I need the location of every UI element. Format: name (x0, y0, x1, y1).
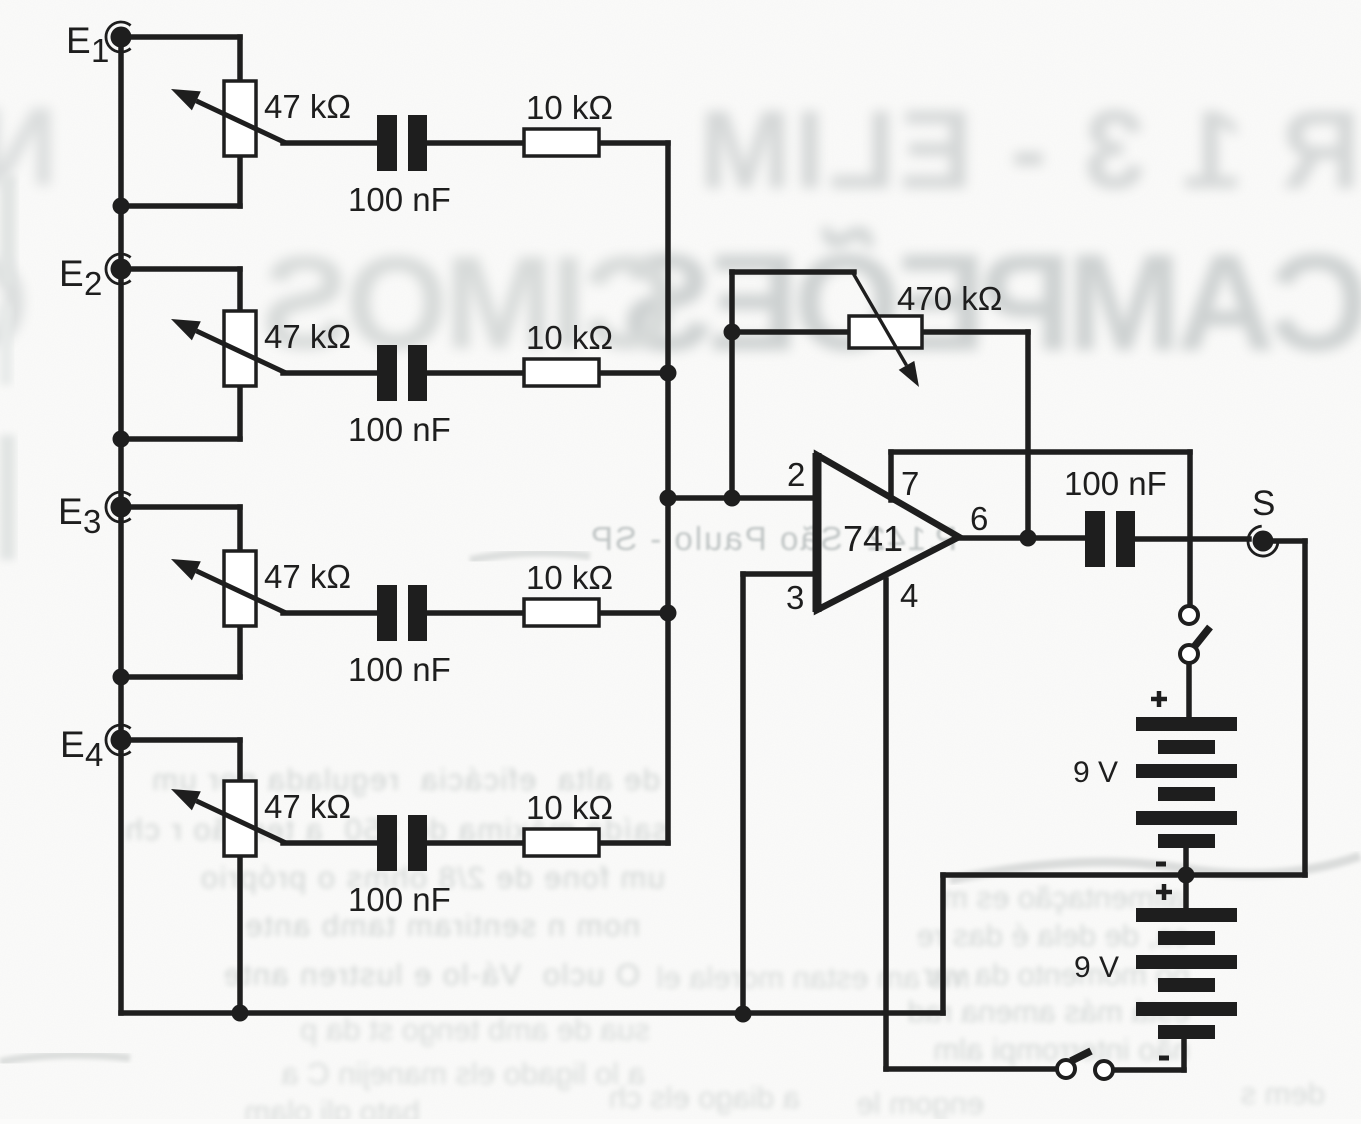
svg-text:100 nF: 100 nF (348, 651, 451, 688)
svg-text:9 V: 9 V (1074, 951, 1119, 984)
svg-text:100 nF: 100 nF (348, 411, 451, 448)
svg-text:E: E (60, 724, 85, 765)
svg-text:100 nF: 100 nF (348, 881, 451, 918)
svg-text:3: 3 (786, 579, 804, 616)
svg-text:47 kΩ: 47 kΩ (264, 558, 351, 595)
svg-text:4: 4 (900, 577, 918, 614)
svg-text:ca, de dela é das re: ca, de dela é das re (917, 918, 1189, 953)
svg-text:10 kΩ: 10 kΩ (526, 789, 613, 826)
svg-text:1: 1 (91, 32, 109, 69)
svg-text:ms am estan morela el: ms am estan morela el (656, 960, 970, 995)
svg-text:4: 4 (85, 736, 103, 773)
svg-text:741: 741 (843, 518, 903, 559)
svg-text:6: 6 (970, 500, 988, 537)
svg-text:R 1 3 - ELIM: R 1 3 - ELIM (696, 88, 1361, 212)
svg-text:S: S (1252, 484, 1275, 523)
svg-text:3: 3 (83, 503, 101, 540)
svg-text:2: 2 (84, 265, 102, 302)
svg-text:7: 7 (901, 465, 919, 502)
svg-text:a lo ligado els manejin C a: a lo ligado els manejin C a (281, 1056, 645, 1091)
svg-text:100 nF: 100 nF (1064, 465, 1167, 502)
svg-text:O uclo Vá-lo e lustren ante: O uclo Vá-lo e lustren ante (222, 957, 640, 992)
svg-text:2: 2 (787, 456, 805, 493)
svg-text:10 kΩ: 10 kΩ (526, 89, 613, 126)
svg-text:E: E (66, 20, 91, 61)
svg-text:470 kΩ: 470 kΩ (897, 280, 1002, 317)
svg-text:47 kΩ: 47 kΩ (264, 88, 351, 125)
svg-text:10 kΩ: 10 kΩ (526, 319, 613, 356)
svg-text:bato gli olam: bato gli olam (244, 1094, 420, 1119)
svg-text:a diago els ch: a diago els ch (609, 1080, 800, 1115)
svg-text:47 kΩ: 47 kΩ (264, 318, 351, 355)
svg-text:10 kΩ: 10 kΩ (526, 559, 613, 596)
svg-text:47 kΩ: 47 kΩ (264, 788, 351, 825)
svg-text:dem s: dem s (1241, 1076, 1325, 1111)
svg-text:100 nF: 100 nF (348, 181, 451, 218)
svg-text:E: E (58, 491, 83, 532)
svg-text:E: E (59, 253, 84, 294)
svg-text:sua de amb tengo st da p: sua de amb tengo st da p (300, 1012, 650, 1047)
svg-text:9 V: 9 V (1073, 756, 1118, 789)
svg-text:engom le: engom le (856, 1086, 984, 1119)
